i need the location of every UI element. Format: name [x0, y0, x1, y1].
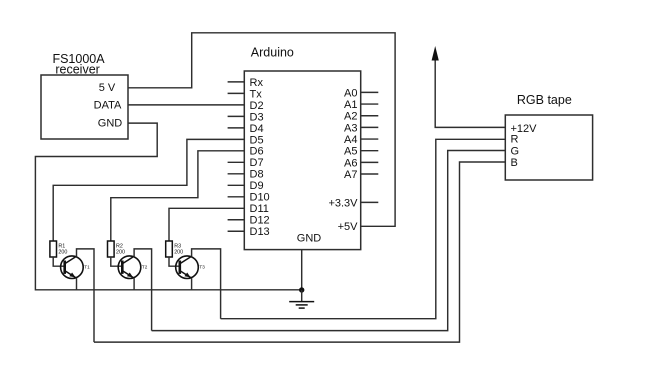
svg-text:D8: D8	[250, 169, 264, 181]
label T3	[199, 265, 205, 270]
wire Arduino GND pin down to ground node	[301, 250, 303, 290]
svg-text:D3: D3	[250, 111, 264, 123]
pin D8 stub	[228, 173, 245, 175]
transistor T2	[118, 256, 141, 279]
pin DATA of FS1000A	[94, 100, 122, 112]
svg-text:receiver: receiver	[55, 62, 99, 76]
receiver U1 FS1000A box	[41, 75, 128, 139]
label R2 value 200	[116, 243, 125, 255]
pin A5 stub	[361, 150, 379, 152]
resistor R3	[166, 241, 173, 257]
svg-text:Rx: Rx	[250, 77, 264, 89]
pin +5V label	[338, 221, 359, 233]
svg-text:5 V: 5 V	[99, 82, 116, 94]
pin A4 label	[344, 134, 357, 146]
svg-text:T2: T2	[142, 265, 148, 270]
wire R3 to base of T3	[169, 257, 180, 266]
pin D9 label	[250, 180, 264, 192]
svg-text:+5V: +5V	[338, 221, 359, 233]
wire collector of T1	[77, 249, 95, 342]
wire GND net: FS1000A GND around left side to ground rail	[35, 123, 301, 290]
label R1 value 200	[58, 243, 67, 255]
node GND junction dot	[299, 287, 304, 292]
RGB tape box	[505, 115, 592, 180]
pin D12 label	[250, 215, 270, 227]
svg-text:200: 200	[58, 249, 67, 255]
wire DATA net: FS1000A DATA to Arduino D2	[128, 104, 244, 106]
pin +12V label	[511, 123, 538, 135]
pin D12 stub	[228, 219, 245, 221]
wire emitter of T2 to ground rail	[133, 278, 135, 290]
wire collector of T2	[134, 249, 152, 331]
pin D11 label	[250, 203, 269, 215]
pin A1 stub	[361, 103, 379, 105]
svg-text:D6: D6	[250, 146, 264, 158]
pin A3 label	[344, 122, 357, 134]
svg-text:A3: A3	[344, 122, 357, 134]
pin 5 V of FS1000A	[99, 82, 116, 94]
pin A5 label	[344, 146, 357, 158]
svg-text:200: 200	[116, 249, 125, 255]
pin D3 stub	[228, 115, 245, 117]
svg-text:Arduino: Arduino	[251, 46, 294, 60]
pin A0 stub	[361, 91, 379, 93]
svg-text:D11: D11	[250, 203, 269, 215]
svg-text:D10: D10	[250, 192, 270, 204]
svg-text:A4: A4	[344, 134, 357, 146]
pin D7 label	[250, 157, 264, 169]
wire net D5 to R1	[53, 139, 244, 241]
pin G label	[511, 145, 520, 157]
svg-text:D4: D4	[250, 123, 264, 135]
wire +12V net with supply arrow	[435, 60, 505, 128]
resistor R2	[108, 241, 115, 257]
svg-text:Tx: Tx	[250, 88, 263, 100]
pin GND of FS1000A	[98, 117, 123, 129]
wire R2 to base of T2	[111, 257, 123, 266]
svg-text:A6: A6	[344, 157, 357, 169]
pin D7 stub	[228, 161, 245, 163]
label receiver	[55, 62, 99, 76]
pin D5 label	[250, 134, 264, 146]
label Arduino	[251, 46, 294, 60]
pin R label	[511, 133, 519, 145]
svg-text:G: G	[511, 145, 520, 157]
pin Rx label	[250, 77, 264, 89]
svg-text:200: 200	[174, 249, 183, 255]
pin D4 stub	[228, 127, 245, 129]
svg-text:D2: D2	[250, 100, 264, 112]
svg-text:GND: GND	[98, 117, 123, 129]
pin A1 label	[344, 99, 357, 111]
pin Rx stub	[228, 81, 245, 83]
svg-text:+3.3V: +3.3V	[328, 197, 358, 209]
svg-text:D12: D12	[250, 215, 270, 227]
pin Tx label	[250, 88, 263, 100]
transistor T1	[61, 256, 84, 279]
svg-text:GND: GND	[297, 233, 322, 245]
svg-text:D7: D7	[250, 157, 264, 169]
pin D2 label	[250, 100, 264, 112]
wire R net: RGB tape R to T3 collector	[221, 139, 506, 318]
pin +3.3V label	[328, 197, 358, 209]
wire collector of T3	[192, 249, 221, 319]
ground symbol	[289, 290, 314, 308]
pin A6 label	[344, 157, 357, 169]
wire net D6 to R2	[111, 151, 245, 241]
label FS1000A	[52, 52, 105, 66]
label RGB tape	[517, 93, 572, 107]
label T2	[142, 265, 148, 270]
wire B net: RGB tape B to T1 collector	[94, 162, 505, 342]
pin A2 label	[344, 111, 357, 123]
Arduino U2 box	[244, 71, 360, 250]
svg-text:A0: A0	[344, 87, 357, 99]
pin A3 stub	[361, 126, 379, 128]
pin D10 stub	[228, 196, 245, 198]
supply arrow head (antenna/+12V)	[432, 46, 439, 61]
svg-text:A5: A5	[344, 146, 357, 158]
svg-text:D13: D13	[250, 226, 270, 238]
svg-text:A2: A2	[344, 111, 357, 123]
svg-text:DATA: DATA	[94, 100, 122, 112]
pin GND label of Arduino	[297, 233, 322, 245]
pin D6 label	[250, 146, 264, 158]
wire R1 to base of T1	[53, 257, 64, 266]
pin D9 stub	[228, 184, 245, 186]
wire G net: RGB tape G to T2 collector	[152, 151, 506, 331]
pin A6 stub	[361, 161, 379, 163]
pin B label	[511, 157, 518, 169]
svg-text:A7: A7	[344, 169, 357, 181]
resistor R1	[50, 241, 57, 257]
svg-text:R: R	[511, 133, 519, 145]
pin A2 stub	[361, 115, 379, 117]
svg-text:D9: D9	[250, 180, 264, 192]
svg-text:T3: T3	[199, 265, 205, 270]
wire emitter of T1 to ground rail	[76, 278, 78, 290]
wire net D11 to R3	[169, 208, 244, 241]
wire +5V net: FS1000A 5V up over Arduino to +5V pin	[128, 33, 395, 227]
wire emitter of T3 to ground rail	[191, 278, 193, 290]
label T1	[84, 265, 90, 270]
pin D13 label	[250, 226, 270, 238]
pin Tx stub	[228, 92, 245, 94]
svg-text:D5: D5	[250, 134, 264, 146]
pin D13 stub	[228, 230, 245, 232]
pin +3.3V stub	[361, 201, 379, 203]
pin A4 stub	[361, 138, 379, 140]
pin A0 label	[344, 87, 357, 99]
svg-text:RGB tape: RGB tape	[517, 93, 572, 107]
pin D10 label	[250, 192, 270, 204]
pin A7 label	[344, 169, 357, 181]
svg-text:T1: T1	[84, 265, 90, 270]
pin D3 label	[250, 111, 264, 123]
pin D4 label	[250, 123, 264, 135]
pin A7 stub	[361, 173, 379, 175]
pin D8 label	[250, 169, 264, 181]
transistor T3	[176, 256, 199, 279]
label R3 value 200	[174, 243, 183, 255]
svg-text:A1: A1	[344, 99, 357, 111]
svg-text:B: B	[511, 157, 518, 169]
